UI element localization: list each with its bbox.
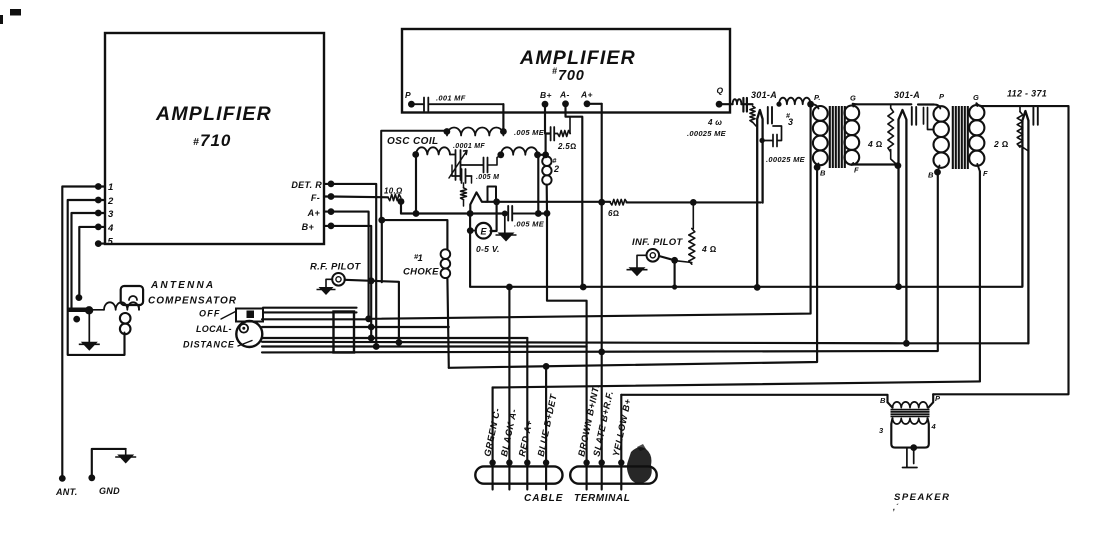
wire INF pilot right (659, 256, 675, 260)
resistor 2 ohm (1019, 106, 1021, 112)
bus A filament minus (470, 286, 1022, 288)
junction BLUE busE (543, 363, 550, 370)
svg-text:AMPLIFIER: AMPLIFIER (519, 47, 636, 69)
wire pin stubs left (98, 187, 105, 244)
wire pin stubs right (324, 184, 331, 226)
junction DET.R line7 (373, 343, 380, 350)
svg-text:5: 5 (108, 237, 114, 248)
meter E (476, 223, 492, 239)
coil at Q (733, 99, 742, 104)
node B2 (934, 169, 941, 176)
svg-text:4: 4 (931, 422, 937, 431)
svg-text:B: B (880, 396, 886, 405)
terminal RED (524, 459, 530, 465)
bus E B+DET choke feed (449, 167, 817, 367)
wire coil2 to node (546, 185, 548, 214)
node DET.R (328, 181, 335, 188)
node filament line (493, 198, 500, 205)
osc grid winding (left) (412, 151, 419, 158)
svg-text:2: 2 (553, 164, 559, 174)
tube2 filament (899, 110, 907, 343)
svg-text:DET. R: DET. R (291, 180, 322, 190)
pin 2 junction (95, 197, 102, 204)
svg-text:E: E (480, 227, 487, 237)
wire A+ drop (331, 212, 369, 319)
capacitor .005 to ground (502, 211, 508, 217)
svg-text:SPEAKER: SPEAKER (894, 492, 950, 503)
terminal P (408, 101, 415, 108)
svg-text:ANT.: ANT. (55, 487, 78, 497)
junction A+ bus (365, 315, 372, 322)
svg-text:R.F. PILOT: R.F. PILOT (310, 262, 361, 273)
resistor 4 ohm vertical (692, 202, 694, 228)
speaker transformer top hooks (888, 402, 893, 407)
grid leak capacitor tube1 (762, 126, 781, 147)
cable connector oval (475, 466, 562, 483)
node antenna tap (76, 294, 83, 301)
tube2 grid bars (912, 107, 916, 125)
wire switch line 1 (263, 307, 357, 309)
wire E meter right tap (491, 202, 497, 231)
svg-text:301-A: 301-A (751, 90, 777, 100)
wire SLATE B+RF vertical (601, 104, 603, 490)
node ANT (59, 475, 66, 482)
wire GND post (92, 449, 126, 478)
node B1 (814, 164, 821, 171)
svg-text:P: P (939, 92, 945, 101)
wire pin2 to compensator coil bottom (68, 200, 125, 355)
transformer T2 secondary (976, 103, 979, 106)
node E tap (467, 227, 474, 234)
bus F C-minus (493, 381, 980, 387)
svg-text:1: 1 (418, 253, 424, 264)
pin 4 junction (95, 224, 102, 231)
svg-text:112 - 371: 112 - 371 (1007, 89, 1047, 99)
svg-text:Q: Q (717, 86, 724, 96)
switch rotary circle (236, 321, 262, 347)
svg-text:P.: P. (814, 93, 821, 102)
osc antenna winding (top coil) (444, 128, 451, 135)
pilot lamp INF (647, 249, 660, 262)
antenna compensator trimmer box (138, 305, 140, 310)
terminal GREEN (489, 459, 495, 465)
svg-text:3: 3 (108, 209, 114, 220)
svg-text:,´: ,´ (892, 503, 900, 512)
wire top coil to P line (502, 104, 504, 131)
speaker transformer secondary (893, 418, 928, 424)
ink blot (627, 447, 652, 483)
wire choke to bus E (447, 279, 448, 368)
antenna compensator coil (vertical) (120, 313, 131, 324)
wire osc box edge to pilot line (381, 220, 383, 282)
node A+ (328, 208, 335, 215)
grid leak zigzag (461, 188, 467, 200)
speaker secondary loop (891, 418, 929, 447)
transformer T1 core (830, 106, 845, 168)
svg-text:TERMINAL: TERMINAL (574, 493, 630, 504)
wire switch line 3 to A+ drop (262, 318, 369, 320)
node left winding tap (413, 210, 420, 217)
wire switch line 7 (262, 345, 587, 347)
svg-text:P: P (405, 90, 411, 100)
tube1 grid bars (768, 107, 772, 124)
scan mark top-left (10, 9, 21, 16)
svg-text:.005 ME: .005 ME (514, 220, 545, 229)
svg-text:P: P (935, 394, 941, 403)
wire F2 to bus F (979, 171, 981, 381)
node speaker (910, 444, 917, 451)
wire switch line 5 to RED drop (262, 337, 527, 339)
wire cathode line (401, 212, 547, 214)
svg-text:.0001 MF: .0001 MF (453, 143, 485, 150)
svg-text:F: F (983, 169, 988, 178)
junction BLACK busA (506, 284, 513, 291)
ground at INF pilot (637, 255, 647, 267)
osc plate winding (right) (497, 151, 504, 158)
junction pilot busC (396, 339, 403, 346)
svg-text:.00025 ME: .00025 ME (766, 155, 806, 164)
svg-text:LOCAL-: LOCAL- (196, 324, 232, 334)
svg-text:0-5 V.: 0-5 V. (476, 244, 500, 254)
resistor 10 ohm (388, 194, 401, 200)
capacitor .005 mid (461, 158, 488, 173)
svg-text:AMPLIFIER: AMPLIFIER (155, 103, 272, 125)
svg-text:301-A: 301-A (894, 90, 920, 100)
tube2 plate wire (918, 103, 934, 105)
node right winding end (534, 151, 541, 158)
terminal BLACK (506, 459, 512, 465)
svg-text:2 Ω: 2 Ω (993, 139, 1009, 149)
resistor 6 ohm (610, 199, 627, 205)
svg-text:B: B (820, 169, 826, 178)
svg-text:4 Ω: 4 Ω (701, 244, 717, 254)
svg-text:4: 4 (107, 223, 114, 234)
antenna compensator coil (horizontal) (89, 309, 104, 311)
node osc box bottom (378, 217, 385, 224)
transformer T1 primary (811, 104, 819, 108)
node F1 (895, 162, 902, 169)
svg-text:710: 710 (200, 131, 231, 150)
wire filament line to 6 ohm (486, 201, 610, 203)
wire RED A+ (526, 338, 528, 490)
speaker transformer primary (893, 402, 928, 408)
terminal YELLOW (618, 459, 624, 465)
wire A- drop and branch (566, 104, 583, 287)
svg-text:B+: B+ (302, 222, 315, 232)
svg-text:2.5Ω: 2.5Ω (557, 142, 576, 151)
svg-text:.001 MF: .001 MF (436, 94, 466, 103)
wire 10 ohm to bottom line (400, 202, 402, 214)
wire B+ drop to cap (545, 104, 550, 133)
svg-text:A+: A+ (307, 208, 321, 218)
junction A- busA (580, 284, 587, 291)
wire A+ to slate vertical (587, 103, 602, 105)
detector tube filament (470, 192, 486, 213)
svg-text:COMPENSATOR: COMPENSATOR (148, 296, 237, 307)
junction SLATE busD (598, 349, 605, 356)
amplifier U700 box (402, 29, 730, 113)
svg-text:A+: A+ (580, 90, 593, 100)
terminal BROWN (583, 459, 589, 465)
svg-text:CHOKE: CHOKE (403, 267, 439, 278)
pilot lamp RF (332, 273, 345, 286)
svg-text:F: F (854, 166, 859, 175)
svg-text:6Ω: 6Ω (608, 209, 619, 218)
svg-text:#: # (193, 136, 199, 148)
pin 5 junction (95, 240, 102, 247)
bus G yellow to speaker (621, 395, 887, 403)
svg-text:3: 3 (879, 426, 884, 435)
svg-text:B+: B+ (540, 90, 552, 100)
tube1 plate coil (779, 98, 811, 105)
node stub below bar (73, 316, 80, 323)
svg-text:700: 700 (558, 68, 585, 84)
terminal B+ (542, 101, 549, 108)
svg-text:OSC COIL: OSC COIL (387, 136, 439, 147)
wire E meter vertical (469, 214, 471, 287)
wire B+ winding junction (545, 134, 547, 155)
svg-text:10.Ω: 10.Ω (384, 187, 403, 196)
junction bar (68, 308, 89, 313)
speaker transformer core (891, 410, 930, 417)
terminal connector oval (570, 466, 657, 483)
junction pilot busA (672, 284, 677, 289)
transformer T2 core (953, 106, 968, 169)
node compensator junction (85, 306, 93, 314)
coil #2 (545, 155, 547, 157)
svg-text:#: # (552, 66, 557, 76)
node slate crossing (598, 199, 605, 206)
switch body rectangle (236, 309, 263, 322)
wire F- to 10 ohm resistor (331, 195, 388, 198)
svg-text:GND: GND (99, 486, 120, 496)
wire GREEN C- (492, 388, 494, 490)
wire DET.R drop (331, 184, 376, 347)
cable bundle sheath (334, 312, 355, 353)
switch pointer lines (221, 312, 236, 320)
ground at RF pilot (326, 279, 332, 287)
svg-text:OFF: OFF (199, 309, 221, 319)
terminal BLUE (543, 459, 549, 465)
svg-text:G: G (850, 94, 856, 103)
wire BLACK A- (508, 287, 510, 490)
wire right winding drop (537, 155, 539, 214)
capacitor .00025 at Q (743, 98, 747, 112)
node F- (328, 193, 335, 200)
amplifier U710 box (105, 33, 324, 244)
grid condenser lower (452, 169, 472, 183)
transformer T2 primary (934, 105, 941, 109)
svg-text:INF. PILOT: INF. PILOT (632, 237, 683, 248)
pin 1 junction (95, 183, 102, 190)
svg-text:DISTANCE: DISTANCE (183, 340, 235, 350)
variable capacitor .0001 MF (450, 150, 461, 180)
osc coil box edges (381, 131, 447, 220)
wire switch line 4 (262, 326, 449, 328)
wire switch line 2 (263, 311, 357, 313)
terminal SLATE (599, 459, 605, 465)
svg-text:3: 3 (788, 117, 793, 127)
wire left winding drop (415, 155, 417, 214)
node plate1 (807, 101, 814, 108)
svg-text:G: G (973, 93, 979, 102)
speaker voice coil stub (903, 448, 918, 468)
terminal A- (562, 100, 569, 107)
pin 3 junction (95, 210, 102, 217)
node 10 ohm out (398, 198, 405, 205)
grid resistor tube1 (750, 106, 755, 122)
tube3 filament (1022, 111, 1028, 343)
tube1 filament (757, 110, 762, 288)
tube3 grid bars (1033, 108, 1037, 125)
svg-text:CABLE: CABLE (524, 493, 563, 504)
wire F1 (852, 163, 898, 165)
node E meter tap (467, 210, 474, 217)
detector plate staple (488, 187, 497, 202)
svg-text:2: 2 (107, 196, 114, 207)
node INF pilot (671, 257, 678, 264)
ground at compensator (88, 310, 90, 342)
node B+ (328, 223, 335, 230)
capacitor .001 MF (411, 98, 503, 112)
node GND (88, 474, 95, 481)
wire osc to choke (382, 220, 448, 249)
svg-text:ANTENNA: ANTENNA (150, 280, 215, 291)
junction tube2 leg busC (903, 340, 910, 347)
terminal Q (716, 101, 723, 108)
wire pin3 to junction bar (72, 213, 99, 310)
resistor 2.5 ohm (558, 131, 571, 137)
wire pin4 tap (79, 227, 98, 298)
node 4 ohm top (690, 199, 697, 206)
scan mark left edge (0, 15, 3, 24)
svg-text:4 Ω: 4 Ω (867, 139, 883, 149)
wire Q to coil (719, 103, 733, 105)
node B+ coil junction (542, 151, 549, 158)
capacitor .005 at B+ (551, 127, 558, 141)
bus B plate feed (369, 104, 811, 319)
ground at GND post (125, 449, 127, 455)
junction tube1 busA (754, 284, 761, 291)
svg-text:4 ω: 4 ω (707, 118, 722, 127)
svg-text:F-: F- (311, 193, 320, 203)
terminal A+ (584, 100, 591, 107)
svg-text:A-: A- (559, 90, 570, 100)
svg-text:.00025 ME: .00025 ME (687, 129, 727, 138)
wire pin1 to ANT post (62, 187, 98, 479)
wire pilot to bus A (674, 260, 676, 287)
tube2 grid hook (924, 108, 934, 130)
resistor 4 ohm interstage (888, 108, 894, 152)
node top coil right (500, 128, 507, 135)
junction B+ line4 (368, 324, 375, 331)
svg-text:.005 ME: .005 ME (514, 128, 545, 137)
wire B+ drop (331, 226, 371, 338)
junction tube2 busA (895, 283, 902, 290)
wire RF pilot to bundle (345, 280, 399, 343)
choke #1 coil (441, 249, 451, 259)
wire bus C switch to tube legs (262, 342, 1028, 344)
wire jog to BROWN (547, 213, 587, 489)
wire G2 to output grid and speaker loop (933, 103, 1068, 394)
svg-text:B: B (928, 171, 934, 180)
svg-text:.005 M: .005 M (476, 174, 499, 181)
node detector return (544, 210, 551, 217)
junction B+ line5 (368, 335, 375, 342)
wire bus D switch to output transformer B (262, 172, 938, 352)
wire YELLOW B+ (620, 395, 622, 490)
wire BLUE B+DET (545, 366, 547, 489)
wire G1 to grid2 (853, 103, 912, 106)
wire 6 ohm to tube1 leg (627, 201, 761, 203)
transformer T1 secondary (852, 104, 855, 107)
svg-text:1: 1 (108, 182, 114, 193)
junction B+ pilot (368, 277, 375, 284)
